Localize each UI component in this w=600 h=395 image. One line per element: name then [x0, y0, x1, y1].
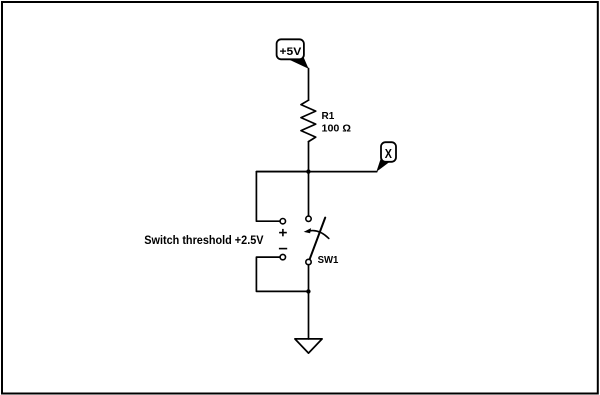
- svg-text:X: X: [385, 147, 393, 161]
- svg-text:R1: R1: [322, 111, 335, 122]
- svg-text:Switch threshold +2.5V: Switch threshold +2.5V: [144, 233, 263, 247]
- svg-text:100 Ω: 100 Ω: [322, 124, 351, 135]
- svg-text:SW1: SW1: [318, 255, 339, 266]
- svg-text:+5V: +5V: [280, 46, 303, 58]
